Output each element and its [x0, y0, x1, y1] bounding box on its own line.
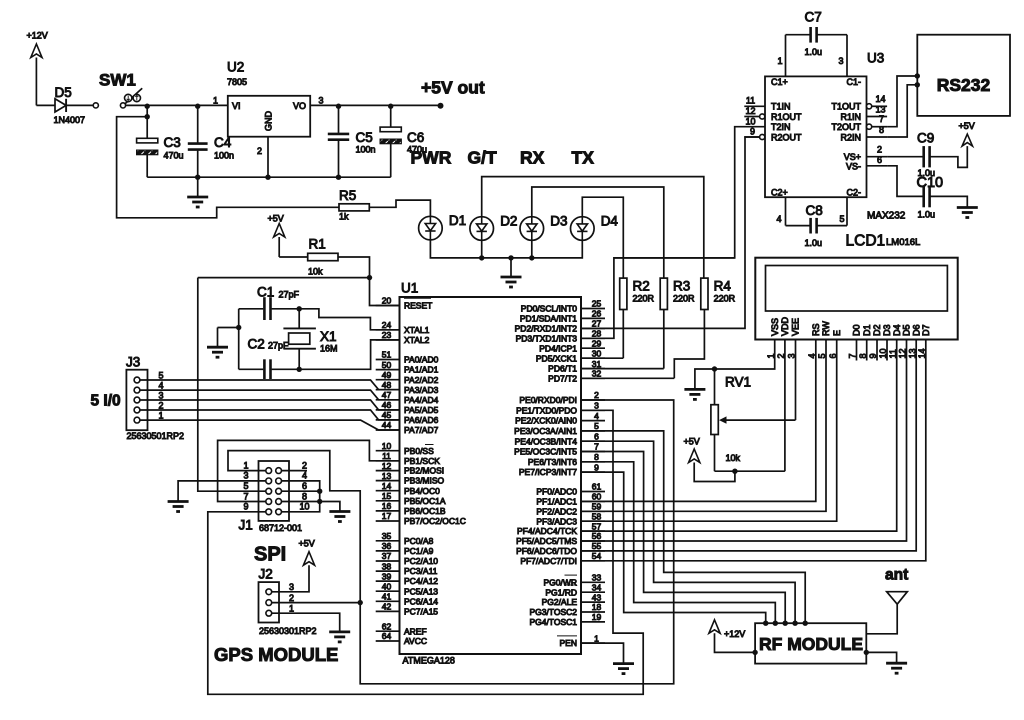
svg-text:PF6/ADC6/TDO: PF6/ADC6/TDO	[516, 546, 577, 556]
svg-text:PF4/ADC4/TCK: PF4/ADC4/TCK	[517, 526, 577, 536]
svg-text:25: 25	[592, 299, 602, 309]
svg-text:+5V: +5V	[684, 437, 700, 447]
svg-text:8: 8	[594, 452, 599, 462]
svg-text:3: 3	[159, 390, 164, 400]
svg-text:XTAL2: XTAL2	[404, 335, 430, 345]
svg-text:55: 55	[592, 541, 602, 551]
svg-text:43: 43	[592, 592, 602, 602]
svg-text:D5: D5	[902, 324, 912, 336]
svg-text:13: 13	[875, 104, 885, 114]
svg-text:D3: D3	[550, 214, 567, 229]
svg-text:48: 48	[382, 380, 392, 390]
svg-text:27: 27	[592, 319, 602, 329]
svg-text:G/T: G/T	[468, 148, 497, 168]
svg-text:PE7/ICP3/INT7: PE7/ICP3/INT7	[519, 467, 577, 477]
svg-text:PE6/T3/INT6: PE6/T3/INT6	[528, 457, 577, 467]
svg-text:61: 61	[592, 482, 602, 492]
svg-text:220R: 220R	[673, 294, 695, 304]
svg-text:PC0/A8: PC0/A8	[404, 536, 434, 546]
svg-text:D3: D3	[882, 324, 892, 336]
svg-text:2: 2	[877, 144, 882, 154]
svg-text:64: 64	[382, 631, 392, 641]
svg-text:11: 11	[746, 96, 755, 106]
svg-text:RX: RX	[520, 148, 545, 168]
svg-text:32: 32	[592, 369, 602, 379]
svg-text:C8: C8	[806, 203, 823, 218]
svg-text:PE2/XCK0/AIN0: PE2/XCK0/AIN0	[515, 416, 577, 426]
svg-text:220R: 220R	[633, 294, 655, 304]
svg-text:3: 3	[289, 582, 294, 592]
svg-text:44: 44	[382, 420, 392, 430]
svg-text:PE0/RXD0/PDI: PE0/RXD0/PDI	[519, 395, 577, 405]
svg-text:PE4/OC3B/INT4: PE4/OC3B/INT4	[515, 436, 578, 446]
svg-text:34: 34	[592, 582, 602, 592]
svg-text:SPI: SPI	[254, 544, 286, 566]
svg-text:PB4/OC0: PB4/OC0	[404, 486, 440, 496]
svg-text:7: 7	[243, 491, 248, 501]
svg-text:59: 59	[592, 502, 602, 512]
svg-text:28: 28	[592, 329, 602, 339]
svg-text:1.0u: 1.0u	[805, 238, 823, 248]
svg-text:27pF: 27pF	[279, 290, 300, 300]
svg-text:7: 7	[594, 442, 599, 452]
svg-text:10: 10	[299, 502, 309, 512]
svg-text:LCD1: LCD1	[846, 233, 886, 250]
svg-text:R1: R1	[309, 237, 326, 252]
svg-text:60: 60	[592, 492, 602, 502]
svg-text:5: 5	[159, 370, 164, 380]
svg-text:PF7/ADC7/TDI: PF7/ADC7/TDI	[520, 556, 577, 566]
svg-text:36: 36	[382, 541, 392, 551]
svg-text:ATMEGA128: ATMEGA128	[403, 656, 455, 666]
svg-text:C1+: C1+	[771, 77, 788, 87]
svg-text:12: 12	[382, 461, 392, 471]
svg-text:VSS: VSS	[770, 318, 780, 336]
svg-text:PB6/OC1B: PB6/OC1B	[404, 506, 446, 516]
svg-text:AREF: AREF	[404, 626, 427, 636]
svg-text:1: 1	[159, 410, 164, 420]
svg-text:C10: C10	[917, 175, 944, 191]
svg-text:PF2/ADC2: PF2/ADC2	[536, 506, 577, 516]
svg-text:R2: R2	[633, 279, 650, 294]
svg-text:11: 11	[382, 451, 391, 461]
svg-text:1: 1	[594, 633, 599, 643]
svg-text:PD6/T1: PD6/T1	[548, 364, 577, 374]
svg-text:39: 39	[382, 571, 392, 581]
svg-text:D5: D5	[55, 85, 72, 100]
svg-text:16M: 16M	[320, 344, 338, 354]
svg-text:46: 46	[382, 400, 392, 410]
svg-text:16: 16	[382, 501, 392, 511]
svg-text:62: 62	[382, 621, 392, 631]
svg-text:TX: TX	[572, 148, 595, 168]
svg-text:PA3/AD3: PA3/AD3	[404, 385, 439, 395]
svg-text:C5: C5	[356, 130, 373, 145]
svg-text:42: 42	[382, 602, 392, 612]
svg-text:24: 24	[382, 320, 392, 330]
svg-text:10: 10	[382, 441, 392, 451]
svg-text:30: 30	[592, 348, 602, 358]
svg-text:C1-: C1-	[846, 77, 861, 87]
svg-text:6: 6	[302, 481, 307, 491]
svg-text:PG1/RD: PG1/RD	[545, 587, 577, 597]
svg-text:3: 3	[243, 471, 248, 481]
svg-text:49: 49	[382, 370, 392, 380]
svg-text:1: 1	[778, 56, 783, 66]
svg-text:PC6/A14: PC6/A14	[404, 596, 438, 606]
svg-text:1.0u: 1.0u	[918, 210, 936, 220]
svg-text:68712-001: 68712-001	[259, 523, 302, 533]
svg-text:220R: 220R	[714, 294, 736, 304]
svg-text:D1: D1	[449, 213, 466, 228]
svg-text:4: 4	[594, 411, 599, 421]
svg-text:C6: C6	[407, 130, 424, 145]
svg-text:RW: RW	[821, 321, 831, 336]
svg-text:PG0/WR: PG0/WR	[543, 577, 577, 587]
svg-text:C9: C9	[917, 131, 934, 146]
svg-text:VS+: VS+	[844, 152, 861, 162]
svg-text:E: E	[832, 330, 842, 336]
svg-text:29: 29	[592, 338, 602, 348]
svg-text:1: 1	[213, 96, 218, 106]
svg-text:100n: 100n	[214, 151, 234, 161]
svg-text:T1IN: T1IN	[771, 102, 791, 112]
svg-text:PD1/SDA/INT1: PD1/SDA/INT1	[520, 314, 577, 324]
svg-text:57: 57	[592, 521, 602, 531]
svg-text:PEN: PEN	[560, 638, 577, 648]
svg-text:VEE: VEE	[791, 318, 801, 336]
svg-text:PE3/OC3A/AIN1: PE3/OC3A/AIN1	[514, 426, 577, 436]
svg-text:R2OUT: R2OUT	[771, 132, 802, 142]
svg-text:3: 3	[594, 401, 599, 411]
svg-text:PB7/OC2/OC1C: PB7/OC2/OC1C	[404, 516, 466, 526]
svg-text:50: 50	[382, 360, 392, 370]
svg-text:+12V: +12V	[724, 629, 745, 639]
svg-text:PA1/AD1: PA1/AD1	[404, 365, 439, 375]
svg-text:PD2/RXD1/INT2: PD2/RXD1/INT2	[515, 324, 578, 334]
svg-text:51: 51	[382, 350, 392, 360]
svg-text:9: 9	[750, 127, 755, 137]
svg-text:2: 2	[257, 146, 262, 156]
svg-text:J3: J3	[126, 355, 140, 370]
svg-text:17: 17	[382, 511, 392, 521]
svg-text:PC1/A9: PC1/A9	[404, 546, 434, 556]
svg-text:PF1/ADC1: PF1/ADC1	[536, 497, 577, 507]
svg-text:R3: R3	[673, 279, 690, 294]
svg-text:PA5/AD5: PA5/AD5	[404, 405, 439, 415]
svg-text:13: 13	[382, 471, 392, 481]
svg-text:PF0/ADC0: PF0/ADC0	[536, 487, 577, 497]
svg-text:PD7/T2: PD7/T2	[548, 373, 577, 383]
svg-text:PD3/TXD1/INT3: PD3/TXD1/INT3	[516, 333, 578, 343]
svg-text:45: 45	[382, 410, 392, 420]
svg-text:RS232: RS232	[937, 75, 991, 95]
svg-text:47: 47	[382, 390, 392, 400]
svg-text:MAX232: MAX232	[867, 211, 906, 222]
svg-text:3: 3	[839, 56, 844, 66]
svg-text:PG4/TOSC1: PG4/TOSC1	[529, 617, 577, 627]
svg-text:C2-: C2-	[846, 188, 861, 198]
svg-text:R5: R5	[339, 188, 356, 203]
svg-text:T2IN: T2IN	[771, 122, 791, 132]
svg-text:20: 20	[382, 296, 392, 306]
svg-text:PD5/XCK1: PD5/XCK1	[536, 353, 577, 363]
svg-text:VS-: VS-	[846, 162, 861, 172]
svg-text:PC3/A11: PC3/A11	[404, 566, 438, 576]
svg-text:R4: R4	[714, 279, 732, 294]
svg-text:U3: U3	[867, 51, 884, 66]
svg-text:19: 19	[592, 612, 602, 622]
svg-text:D6: D6	[911, 324, 921, 336]
svg-text:6: 6	[594, 431, 599, 441]
svg-text:C2: C2	[248, 337, 265, 352]
svg-text:5: 5	[243, 481, 248, 491]
svg-text:38: 38	[382, 561, 392, 571]
svg-text:D0: D0	[852, 324, 862, 336]
svg-text:PE1/TXD0/PDO: PE1/TXD0/PDO	[516, 405, 577, 415]
svg-text:9: 9	[243, 502, 248, 512]
svg-text:2: 2	[302, 460, 307, 470]
svg-text:7805: 7805	[227, 77, 247, 87]
svg-text:PC2/A10: PC2/A10	[404, 556, 438, 566]
svg-text:PD4/ICP1: PD4/ICP1	[539, 343, 577, 353]
svg-text:ant: ant	[885, 567, 908, 584]
svg-text:PA2/AD2: PA2/AD2	[404, 375, 439, 385]
svg-text:RV1: RV1	[725, 375, 751, 390]
svg-text:SW1: SW1	[99, 71, 136, 90]
svg-text:R2IN: R2IN	[840, 132, 861, 142]
svg-text:D4: D4	[601, 214, 619, 229]
svg-text:U1: U1	[401, 281, 418, 296]
svg-text:GPS MODULE: GPS MODULE	[214, 644, 338, 665]
svg-text:35: 35	[382, 531, 392, 541]
svg-text:R1OUT: R1OUT	[771, 112, 802, 122]
svg-text:D7: D7	[921, 324, 931, 336]
svg-text:PB2/MOSI: PB2/MOSI	[404, 466, 444, 476]
svg-text:C2+: C2+	[771, 188, 788, 198]
svg-text:56: 56	[592, 531, 602, 541]
svg-text:1k: 1k	[339, 212, 349, 222]
svg-text:PWR: PWR	[411, 148, 452, 168]
svg-text:C3: C3	[164, 135, 181, 150]
svg-text:37: 37	[382, 551, 392, 561]
svg-text:8: 8	[879, 125, 884, 135]
svg-text:5: 5	[594, 421, 599, 431]
svg-text:+5V: +5V	[959, 121, 975, 131]
svg-text:D2: D2	[872, 324, 882, 336]
svg-text:33: 33	[592, 573, 602, 583]
svg-text:10k: 10k	[726, 453, 741, 463]
svg-text:100n: 100n	[356, 145, 376, 155]
svg-text:PB3/MISO: PB3/MISO	[404, 476, 445, 486]
svg-text:+5V: +5V	[299, 539, 315, 549]
svg-text:2: 2	[289, 593, 294, 603]
svg-text:3: 3	[319, 96, 324, 106]
svg-text:VI: VI	[232, 101, 241, 111]
svg-text:8: 8	[302, 491, 307, 501]
svg-text:12: 12	[745, 106, 755, 116]
svg-text:1N4007: 1N4007	[54, 115, 86, 125]
svg-text:PA7/AD7: PA7/AD7	[404, 425, 439, 435]
svg-text:C1: C1	[257, 285, 274, 300]
svg-text:7: 7	[879, 114, 884, 124]
svg-text:4: 4	[159, 380, 164, 390]
svg-text:C7: C7	[805, 10, 822, 25]
svg-text:PB1/SCK: PB1/SCK	[404, 456, 440, 466]
svg-text:RF MODULE: RF MODULE	[759, 634, 863, 654]
svg-text:D2: D2	[500, 214, 517, 229]
svg-text:D4: D4	[892, 324, 902, 336]
svg-text:10k: 10k	[308, 267, 323, 277]
svg-text:VO: VO	[293, 101, 306, 111]
svg-text:AVCC: AVCC	[404, 636, 427, 646]
svg-text:+5V out: +5V out	[421, 78, 485, 98]
svg-text:PC7/A15: PC7/A15	[404, 607, 438, 617]
svg-text:VDD: VDD	[780, 316, 790, 336]
svg-text:14: 14	[875, 94, 885, 104]
svg-text:PG2/ALE: PG2/ALE	[542, 597, 578, 607]
svg-text:40: 40	[382, 581, 392, 591]
svg-text:58: 58	[592, 511, 602, 521]
svg-text:+5V: +5V	[268, 214, 284, 224]
svg-text:D1: D1	[862, 324, 872, 336]
svg-text:14: 14	[382, 481, 392, 491]
svg-text:U2: U2	[227, 60, 244, 75]
svg-text:31: 31	[592, 359, 602, 369]
svg-text:15: 15	[382, 491, 392, 501]
svg-text:PD0/SCL/INT0: PD0/SCL/INT0	[521, 304, 577, 314]
svg-text:PE5/OC3C/INT5: PE5/OC3C/INT5	[514, 447, 577, 457]
svg-text:PC5/A13: PC5/A13	[404, 586, 438, 596]
svg-text:R1IN: R1IN	[840, 112, 861, 122]
svg-text:PC4/A12: PC4/A12	[404, 576, 438, 586]
svg-text:2: 2	[594, 390, 599, 400]
svg-text:1: 1	[289, 604, 294, 614]
svg-text:T1OUT: T1OUT	[831, 102, 861, 112]
svg-text:PB0/SS: PB0/SS	[404, 446, 434, 456]
svg-text:25630301RP2: 25630301RP2	[259, 626, 317, 636]
svg-text:PA6/AD6: PA6/AD6	[404, 415, 439, 425]
svg-text:RS: RS	[811, 323, 821, 336]
svg-text:1.0u: 1.0u	[805, 47, 823, 57]
svg-text:18: 18	[592, 602, 602, 612]
svg-text:GND: GND	[264, 111, 274, 132]
svg-text:5 I/0: 5 I/0	[91, 393, 121, 410]
svg-text:PA4/AD4: PA4/AD4	[404, 395, 439, 405]
svg-text:54: 54	[592, 551, 602, 561]
svg-text:J1: J1	[239, 518, 253, 533]
svg-text:PF3/ADC3: PF3/ADC3	[536, 516, 577, 526]
svg-text:9: 9	[594, 462, 599, 472]
svg-text:X1: X1	[320, 329, 337, 344]
svg-text:LM016L: LM016L	[886, 237, 920, 248]
svg-text:T2OUT: T2OUT	[831, 122, 861, 132]
svg-text:XTAL1: XTAL1	[404, 325, 430, 335]
svg-text:PG3/TOSC2: PG3/TOSC2	[529, 607, 577, 617]
svg-text:PA0/AD0: PA0/AD0	[404, 355, 439, 365]
svg-text:RESET: RESET	[404, 301, 432, 311]
svg-text:4: 4	[777, 214, 782, 224]
svg-text:41: 41	[382, 592, 392, 602]
svg-text:J2: J2	[259, 567, 273, 582]
svg-text:1: 1	[243, 460, 248, 470]
svg-text:2: 2	[159, 400, 164, 410]
svg-text:4: 4	[302, 471, 307, 481]
svg-text:25630501RP2: 25630501RP2	[127, 431, 185, 441]
svg-text:6: 6	[877, 155, 882, 165]
svg-text:10: 10	[745, 116, 755, 126]
svg-text:470u: 470u	[164, 151, 184, 161]
svg-text:C4: C4	[214, 135, 232, 150]
svg-text:PF5/ADC5/TMS: PF5/ADC5/TMS	[516, 536, 577, 546]
svg-text:26: 26	[592, 309, 602, 319]
svg-text:PB5/OC1A: PB5/OC1A	[404, 496, 446, 506]
svg-text:5: 5	[840, 214, 845, 224]
svg-text:23: 23	[382, 330, 392, 340]
svg-text:+12V: +12V	[27, 31, 48, 41]
